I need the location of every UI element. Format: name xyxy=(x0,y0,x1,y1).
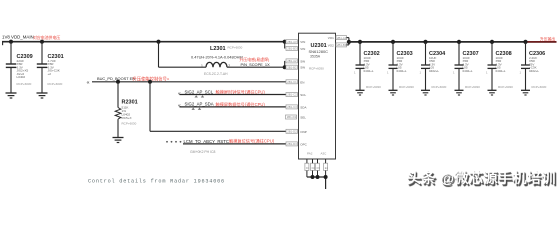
svg-text:SIG2_AP_SCL: SIG2_AP_SCL xyxy=(185,89,214,94)
wire IC ground net xyxy=(307,159,326,189)
svg-text:D1: D1 xyxy=(306,166,310,170)
svg-text:2B1-C1: 2B1-C1 xyxy=(287,80,297,84)
svg-text:2B1-D2: 2B1-D2 xyxy=(287,130,297,134)
via marks SDA xyxy=(192,108,202,110)
svg-text:SDA: SDA xyxy=(300,105,306,109)
wire VOUT tie xyxy=(347,38,349,45)
wire ONP route xyxy=(150,82,286,132)
pin box PGND2 xyxy=(311,163,316,170)
svg-text:2B1-A2: 2B1-A2 xyxy=(287,59,297,63)
svg-text:2B1-B3: 2B1-B3 xyxy=(287,47,297,51)
svg-text:BUC_PD_BOOST EN: BUC_PD_BOOST EN xyxy=(97,76,135,81)
node junction C2302 xyxy=(358,40,362,44)
svg-text:RCP+6030: RCP+6030 xyxy=(432,85,447,89)
capacitor C2301 xyxy=(37,42,64,93)
node junction C2307 xyxy=(457,40,461,44)
pin box VIN B1 xyxy=(286,47,298,51)
svg-text:GM+0K2 PH IC8: GM+0K2 PH IC8 xyxy=(190,150,215,154)
svg-text:3535A: 3535A xyxy=(310,55,321,59)
svg-text:L2301: L2301 xyxy=(210,46,226,52)
resistor R2301 xyxy=(115,82,138,138)
svg-text:«: « xyxy=(178,91,181,97)
node junction gnd2 xyxy=(316,175,320,179)
svg-text:0402+L: 0402+L xyxy=(429,69,439,73)
svg-text:2B1-A3: 2B1-A3 xyxy=(337,36,347,40)
pin box SEL xyxy=(286,115,297,119)
capacitor C2304 xyxy=(420,42,447,90)
node junction SW xyxy=(283,65,287,69)
net label SIG2_AP_SDA xyxy=(178,101,265,109)
capacitor C2303 xyxy=(387,42,414,90)
pin box SW A2 xyxy=(286,59,298,63)
wire SDA xyxy=(180,106,287,108)
wire L branch vertical xyxy=(158,42,160,67)
pin box PGND3 xyxy=(316,163,321,170)
svg-text:RCP+6030: RCP+6030 xyxy=(366,85,381,89)
svg-text:2B1-D1: 2B1-D1 xyxy=(287,115,297,119)
pin box OPC xyxy=(286,142,298,146)
node junction gnd1 xyxy=(311,175,315,179)
via marks SCL xyxy=(195,95,205,97)
wire VOUT rail xyxy=(349,41,557,43)
svg-text:VO2: VO2 xyxy=(328,43,334,47)
svg-text:0402+L: 0402+L xyxy=(529,69,539,73)
svg-text:SW: SW xyxy=(300,66,305,70)
svg-text:+2: +2 xyxy=(48,72,52,76)
svg-text:D2: D2 xyxy=(312,166,316,170)
ground R2301 xyxy=(113,138,124,143)
wire L output to SW xyxy=(227,66,285,68)
node junction C2308 xyxy=(490,40,494,44)
wire OPC xyxy=(183,143,286,145)
ground C2309 xyxy=(6,93,17,98)
node junction ONP branch xyxy=(148,80,152,84)
wire EN xyxy=(92,81,286,83)
svg-text:RCP+6030: RCP+6030 xyxy=(17,82,32,86)
svg-text:EN: EN xyxy=(300,80,304,84)
node junction C2301 xyxy=(40,40,44,44)
node junction C2306 xyxy=(523,40,527,44)
svg-text:2B1-B2: 2B1-B2 xyxy=(287,65,297,69)
svg-text:2B1-C2: 2B1-C2 xyxy=(287,93,297,97)
pin box SCL xyxy=(286,93,298,97)
svg-text:RC5+X: RC5+X xyxy=(122,116,132,120)
ground C2306 xyxy=(521,90,530,95)
svg-text:RCP+6030: RCP+6030 xyxy=(228,46,243,50)
ground C2303 xyxy=(389,90,398,95)
svg-text:RCP+6030: RCP+6030 xyxy=(48,82,63,86)
node junction L branch xyxy=(156,40,160,44)
svg-text:0.47UH-20%-4.1A-0.048OHM: 0.47UH-20%-4.1A-0.048OHM xyxy=(191,54,243,59)
node junction gnd3 xyxy=(324,175,328,179)
ground C2301 xyxy=(37,93,48,98)
svg-text:头条 @微芯源手机培训: 头条 @微芯源手机培训 xyxy=(407,170,556,186)
svg-text:SW: SW xyxy=(300,59,305,63)
svg-text:0402+L: 0402+L xyxy=(496,69,506,73)
svg-text:RCP+6030: RCP+6030 xyxy=(532,85,547,89)
svg-text:VO1: VO1 xyxy=(328,36,334,40)
svg-text:2B1-B3: 2B1-B3 xyxy=(337,43,347,47)
svg-text:0402+L: 0402+L xyxy=(397,69,407,73)
svg-text:Control details from Radar 196: Control details from Radar 19634006 xyxy=(88,179,225,185)
pin box VO1 xyxy=(336,36,347,40)
node junction C2309 xyxy=(9,40,13,44)
ground C2302 xyxy=(356,90,365,95)
svg-text:D3: D3 xyxy=(317,166,321,170)
svg-text:A3C: A3C xyxy=(321,152,328,156)
svg-text:L0402: L0402 xyxy=(17,75,26,79)
svg-text:OPC: OPC xyxy=(300,142,307,146)
ground C2308 xyxy=(488,90,497,95)
svg-text:«: « xyxy=(178,103,181,109)
svg-text:0402+L: 0402+L xyxy=(463,69,473,73)
pin box PGND1 xyxy=(305,163,310,170)
svg-text:RCP+6030: RCP+6030 xyxy=(399,85,414,89)
pin box VIN A1 xyxy=(286,40,298,44)
svg-text:«: « xyxy=(87,80,90,86)
wire VBAT rail xyxy=(2,42,285,46)
svg-text:1: 1 xyxy=(201,64,203,68)
svg-text:0402+L: 0402+L xyxy=(364,69,374,73)
op-amp U2301 body xyxy=(299,33,336,159)
net label SIG2_AP_SCL xyxy=(178,89,265,97)
node junction VOUT xyxy=(347,40,351,44)
svg-text:LCM_TO_ABCY_RSTC: LCM_TO_ABCY_RSTC xyxy=(184,139,230,144)
svg-text:E1: E1 xyxy=(325,166,329,170)
svg-text:P/N_SCOPE_1X: P/N_SCOPE_1X xyxy=(241,62,271,67)
pin box VO2 xyxy=(336,43,347,47)
node junction C2304 xyxy=(423,40,427,44)
svg-text:2B1-A3: 2B1-A3 xyxy=(287,40,297,44)
net label BUC_PD_BOOST EN xyxy=(87,76,170,87)
capacitor C2306 xyxy=(520,42,547,90)
svg-text:SIG2_AP_SDA: SIG2_AP_SDA xyxy=(185,102,214,107)
svg-text:对应电池供电压: 对应电池供电压 xyxy=(33,35,60,40)
ground C2304 xyxy=(421,90,430,95)
svg-text:PA2: PA2 xyxy=(307,152,313,156)
wire SW pins tie xyxy=(284,61,286,67)
svg-text:ONP: ONP xyxy=(300,130,307,134)
pin box SDA xyxy=(286,105,298,109)
ground C2307 xyxy=(455,90,464,95)
node junction C2303 xyxy=(391,40,395,44)
net label LCM_TO_ABCY_RSTC xyxy=(166,138,275,154)
svg-text:RCP+6030: RCP+6030 xyxy=(122,122,137,126)
wire highlighted segment xyxy=(527,41,557,43)
svg-text:VIN: VIN xyxy=(300,47,305,51)
pin box SW B2 xyxy=(286,65,298,69)
svg-text:升压输出: 升压输出 xyxy=(540,36,555,41)
svg-text:SN61280C: SN61280C xyxy=(309,49,329,54)
svg-text:1V8 VDD_MAIN: 1V8 VDD_MAIN xyxy=(2,35,34,40)
svg-text:2B1-C3: 2B1-C3 xyxy=(287,105,297,109)
svg-text:ECS-2C.2-T-AH: ECS-2C.2-T-AH xyxy=(204,72,228,76)
svg-text:SEL: SEL xyxy=(300,116,306,120)
svg-text:RCP+6030: RCP+6030 xyxy=(309,67,324,71)
svg-text:RCP+6030: RCP+6030 xyxy=(465,85,480,89)
pin box ONP xyxy=(286,129,298,133)
svg-text:VIN: VIN xyxy=(300,40,305,44)
node junction R2301 xyxy=(116,80,120,84)
capacitor C2309 xyxy=(6,42,33,93)
capacitor C2302 xyxy=(354,42,381,90)
wire L input xyxy=(159,66,207,68)
wire SCL xyxy=(180,94,287,96)
pin box AGND xyxy=(324,163,329,170)
node junction VIN xyxy=(283,40,287,44)
svg-text:2B1-D3: 2B1-D3 xyxy=(287,142,297,146)
capacitor C2308 xyxy=(486,42,513,90)
inductor L2301 xyxy=(191,46,270,76)
net label VDD_MAIN xyxy=(2,35,60,40)
pin box EN xyxy=(286,80,298,84)
wire VIN pins tie xyxy=(284,42,286,49)
svg-text:RCP+6030: RCP+6030 xyxy=(498,85,513,89)
svg-text:SCL: SCL xyxy=(300,93,306,97)
capacitor C2307 xyxy=(453,42,480,90)
